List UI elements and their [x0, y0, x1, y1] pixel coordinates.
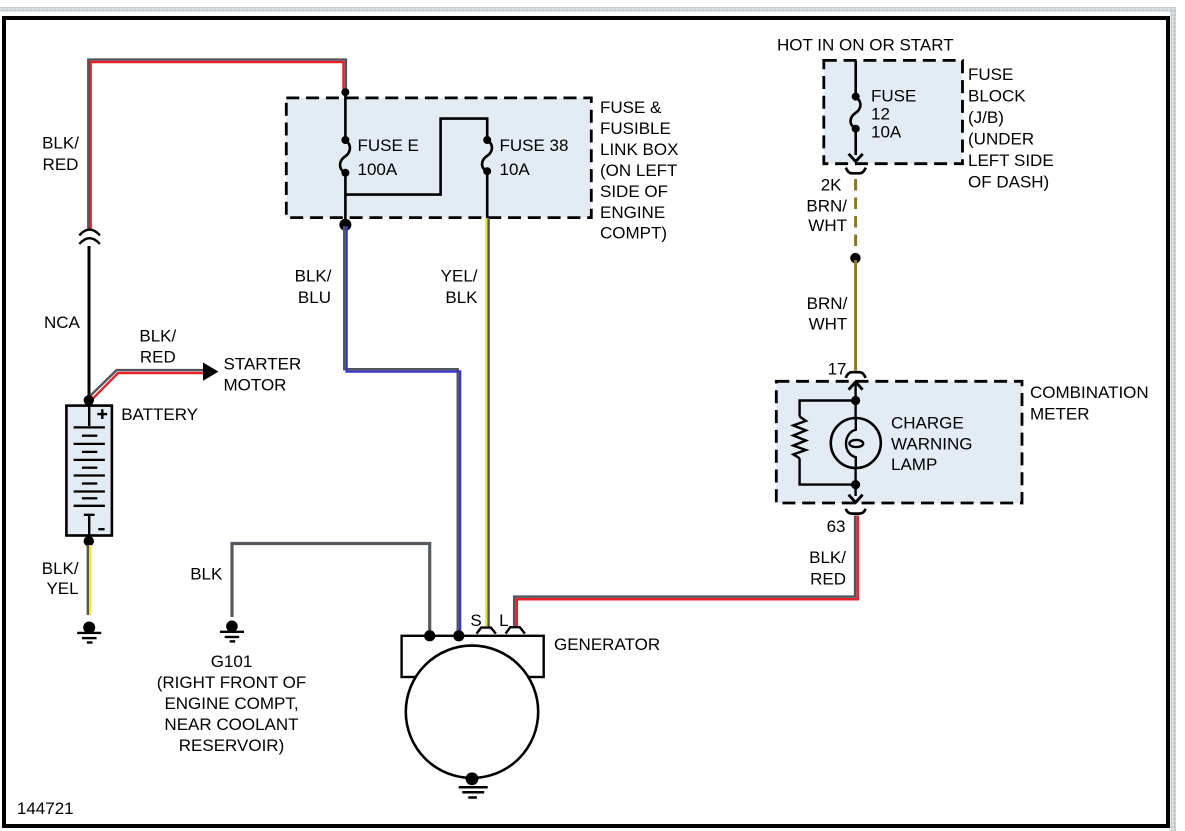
- svg-text:FUSIBLE: FUSIBLE: [600, 119, 671, 138]
- svg-text:BLOCK: BLOCK: [968, 87, 1026, 106]
- svg-text:G101: G101: [211, 652, 253, 671]
- svg-text:NEAR COOLANT: NEAR COOLANT: [164, 715, 298, 734]
- svg-text:WARNING: WARNING: [891, 434, 973, 453]
- svg-text:FUSE E: FUSE E: [358, 136, 419, 155]
- svg-text:BLK/: BLK/: [42, 559, 79, 578]
- svg-text:BRN/: BRN/: [806, 196, 847, 215]
- svg-text:FUSE 38: FUSE 38: [500, 136, 569, 155]
- svg-text:BLK/: BLK/: [139, 327, 176, 346]
- svg-text:BLK: BLK: [190, 565, 223, 584]
- svg-text:RED: RED: [810, 570, 846, 589]
- svg-text:BLK/: BLK/: [295, 267, 332, 286]
- svg-text:YEL: YEL: [46, 579, 78, 598]
- svg-text:YEL/: YEL/: [441, 267, 478, 286]
- svg-text:ENGINE COMPT,: ENGINE COMPT,: [164, 694, 298, 713]
- svg-text:STARTER: STARTER: [224, 355, 302, 374]
- svg-text:(RIGHT FRONT OF: (RIGHT FRONT OF: [157, 673, 307, 692]
- svg-text:144721: 144721: [17, 799, 74, 818]
- svg-text:10A: 10A: [500, 160, 531, 179]
- svg-text:BRN/: BRN/: [807, 294, 848, 313]
- svg-text:(ON LEFT: (ON LEFT: [600, 161, 677, 180]
- svg-text:BLK/: BLK/: [42, 133, 79, 152]
- svg-text:10A: 10A: [871, 123, 902, 142]
- svg-text:METER: METER: [1030, 405, 1090, 424]
- svg-text:FUSE &: FUSE &: [600, 98, 662, 117]
- svg-text:OF DASH): OF DASH): [968, 173, 1049, 192]
- svg-text:GENERATOR: GENERATOR: [554, 635, 660, 654]
- svg-text:RESERVOIR): RESERVOIR): [179, 736, 285, 755]
- svg-text:BLK: BLK: [445, 288, 478, 307]
- svg-text:S: S: [470, 611, 481, 630]
- svg-text:LEFT SIDE: LEFT SIDE: [968, 151, 1054, 170]
- svg-text:(J/B): (J/B): [968, 108, 1004, 127]
- svg-text:2K: 2K: [821, 176, 842, 195]
- svg-text:L: L: [499, 611, 508, 630]
- svg-text:63: 63: [827, 517, 846, 536]
- svg-text:WHT: WHT: [809, 315, 848, 334]
- svg-text:ENGINE: ENGINE: [600, 203, 665, 222]
- svg-text:LINK BOX: LINK BOX: [600, 140, 678, 159]
- svg-text:BLK/: BLK/: [809, 548, 846, 567]
- svg-text:BATTERY: BATTERY: [121, 405, 198, 424]
- svg-text:FUSE: FUSE: [968, 65, 1013, 84]
- svg-text:MOTOR: MOTOR: [224, 376, 287, 395]
- svg-text:100A: 100A: [358, 160, 398, 179]
- svg-text:SIDE OF: SIDE OF: [600, 182, 668, 201]
- svg-text:WHT: WHT: [808, 216, 847, 235]
- svg-text:COMPT): COMPT): [600, 224, 667, 243]
- svg-text:FUSE: FUSE: [871, 87, 916, 106]
- svg-text:LAMP: LAMP: [891, 455, 937, 474]
- svg-text:COMBINATION: COMBINATION: [1030, 383, 1149, 402]
- svg-text:RED: RED: [140, 348, 176, 367]
- svg-text:12: 12: [871, 105, 890, 124]
- svg-text:(UNDER: (UNDER: [968, 130, 1034, 149]
- svg-text:CHARGE: CHARGE: [891, 414, 964, 433]
- svg-text:NCA: NCA: [44, 313, 81, 332]
- svg-text:BLU: BLU: [298, 288, 331, 307]
- svg-text:17: 17: [828, 360, 847, 379]
- svg-text:RED: RED: [43, 155, 79, 174]
- svg-text:HOT IN ON OR START: HOT IN ON OR START: [777, 36, 954, 55]
